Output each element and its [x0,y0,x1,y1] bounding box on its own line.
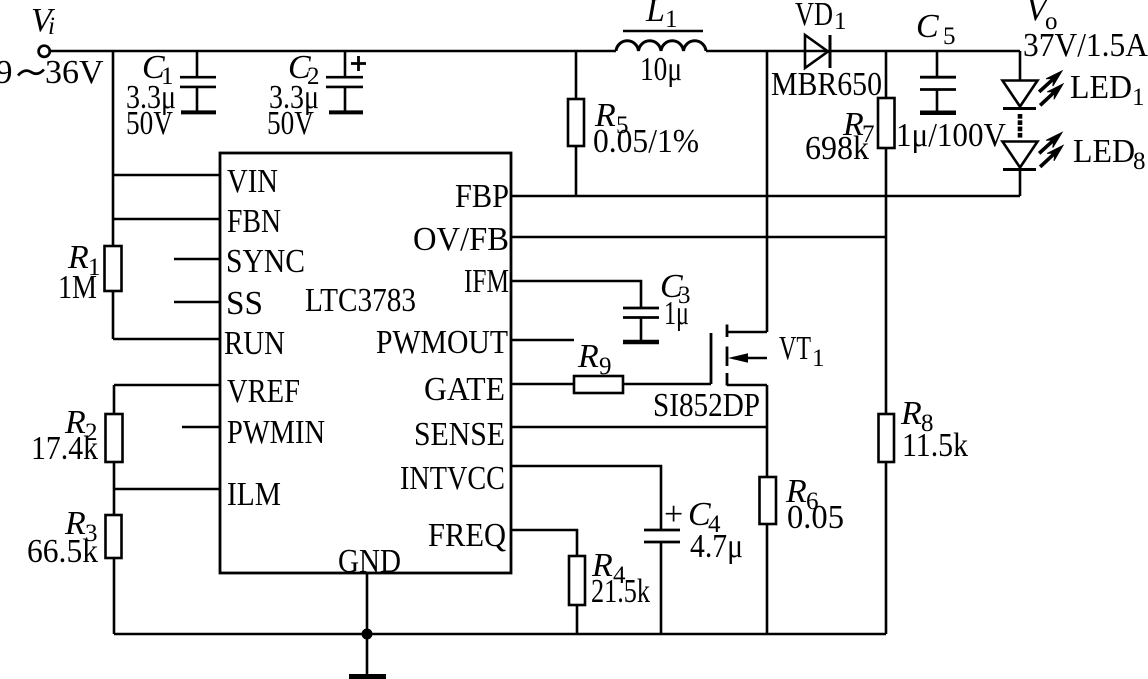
wire R7 top lead [885,51,888,98]
IC U1 LTC3783 box [220,153,511,573]
svg-text:FBN: FBN [227,203,281,240]
svg-text:9: 9 [599,353,612,380]
svg-text:R: R [577,338,599,375]
inductor L1 [616,41,706,51]
resistor R6 label [785,473,844,536]
capacitor C5 [920,77,956,113]
wire SENSE [511,426,767,429]
svg-text:C: C [916,8,939,45]
wire GATE to R9 [511,383,574,386]
LED8 label [1073,133,1146,175]
svg-text:1M: 1M [58,269,97,306]
resistor R9 body [574,376,623,393]
svg-text:50V: 50V [267,105,314,142]
resistor R9 label [577,338,612,380]
wire SS stub [174,301,220,304]
wire top rail left [50,50,616,53]
dotted wire between LED1 and LED8 [1018,114,1023,138]
wire R7 bottom to R8 [885,148,888,414]
wire INTVCC to C4 [511,466,661,529]
svg-text:i: i [48,13,55,40]
svg-text:FBP: FBP [455,178,509,215]
transistor VT1 label [653,330,825,424]
wire ILM [114,488,220,491]
capacitor C1 label [126,49,176,142]
svg-text:SYNC: SYNC [226,243,305,280]
wire top rail right [706,50,1020,53]
svg-text:PWMIN: PWMIN [227,414,325,451]
svg-text:VREF: VREF [227,373,300,410]
wire FREQ to R4 [511,530,577,556]
svg-text:ILM: ILM [227,476,281,513]
svg-text:+: + [664,496,683,533]
svg-text:LTC3783: LTC3783 [305,282,416,319]
svg-text:5: 5 [943,23,956,50]
resistor R2 label [31,404,98,467]
svg-text:66.5k: 66.5k [27,533,98,570]
resistor R1 label [58,239,101,306]
svg-text:L: L [645,0,665,29]
svg-text:8: 8 [1133,148,1146,175]
svg-text:VIN: VIN [227,163,278,200]
wire C4 bottom lead [660,543,663,634]
wire R6 leads [766,385,769,477]
capacitor C2 label [267,49,320,142]
svg-text:SI852DP: SI852DP [653,387,760,424]
svg-text:SENSE: SENSE [414,416,505,453]
svg-text:LED: LED [1070,69,1132,106]
capacitor C4 (electrolytic) [644,530,680,542]
LED8 light arrows [1039,133,1063,168]
svg-text:17.4k: 17.4k [31,430,98,467]
ground symbol [349,674,386,679]
svg-text:1: 1 [1132,84,1145,111]
wire LED8 bottom to FBP rail [1019,169,1022,196]
svg-text:21.5k: 21.5k [591,573,650,610]
svg-text:OV/FB: OV/FB [413,221,509,258]
svg-text:50V: 50V [126,105,173,142]
capacitor C5 label [896,8,1006,154]
wire C5 inner lead [936,89,939,111]
svg-text:FREQ: FREQ [428,517,506,554]
diode VD1 label [771,0,882,103]
resistor R4 label [591,547,650,610]
wire R1 bottom to RUN [112,291,115,339]
svg-text:11.5k: 11.5k [902,427,968,464]
node Vo label [1023,0,1148,64]
resistor R8 body [879,414,895,462]
wire PWMIN stub [182,426,220,429]
wire RUN [113,338,220,341]
resistor R2 body [106,414,123,462]
IC U1 pin labels [224,163,509,580]
wire R4 bottom lead [576,605,579,634]
svg-text:GATE: GATE [424,371,505,408]
wire switch-node drain vertical [766,51,769,332]
wire bottom ground bus [114,633,886,636]
wire OV/FB [511,236,886,239]
resistor R8 label [900,395,968,464]
resistor R5 label [593,97,699,160]
diode VD1 MBR650 [805,35,830,68]
wire GND lead [366,573,369,676]
svg-text:VT: VT [779,330,811,367]
svg-text:INTVCC: INTVCC [400,460,505,497]
wire left input bus [112,51,115,246]
node Vi label [0,2,104,91]
svg-text:1μ: 1μ [664,295,689,332]
svg-text:4.7μ: 4.7μ [690,528,743,565]
svg-text:IFM: IFM [464,263,509,300]
capacitor C1 [180,51,216,112]
wire R8 bottom lead [885,462,888,634]
resistor R4 body [569,556,585,605]
wire PWMOUT stub [511,339,574,342]
wire SYNC stub [174,258,220,261]
svg-text:RUN: RUN [224,325,285,362]
resistor R1 body [105,246,122,291]
wire VIN [113,174,220,177]
wire LED top drop [1019,51,1022,80]
wire R2 bottom to ILM [113,462,116,515]
LED1 [1003,81,1038,109]
svg-text:0.05/1%: 0.05/1% [593,123,699,160]
svg-text:LED: LED [1073,133,1135,170]
capacitor C4 label [664,496,743,565]
svg-text:37V/1.5A: 37V/1.5A [1023,27,1148,64]
wire FBN [113,218,220,221]
wire R5 bottom lead [575,146,578,196]
wire R9 to gate bar [623,383,711,386]
svg-text:PWMOUT: PWMOUT [376,324,508,361]
svg-text:0.05: 0.05 [787,499,844,536]
wire C5 top lead [936,51,939,77]
node junction dot at GND bus [362,629,373,640]
LED1 label [1070,69,1145,111]
svg-text:VD: VD [795,0,833,33]
wire R3 bottom to ground bus [113,558,116,634]
resistor R3 body [106,515,122,558]
svg-text:GND: GND [338,543,401,580]
svg-text:MBR650: MBR650 [771,66,882,103]
svg-text:1μ/100V: 1μ/100V [896,117,1006,154]
svg-text:698k: 698k [805,130,869,167]
svg-text:SS: SS [226,285,263,322]
resistor R7 body [878,98,895,148]
LED1 light arrows [1039,71,1063,106]
wire VREF [114,384,220,387]
resistor R7 label [805,106,875,167]
capacitor C3 label [660,268,691,332]
wire FBP [511,195,1020,198]
svg-text:1: 1 [665,6,678,33]
wire IFM [511,281,641,308]
LED8 [1003,142,1038,170]
node Vi input terminal [39,46,50,57]
svg-text:9: 9 [0,54,13,91]
wire R5 top lead [575,51,578,99]
capacitor C2 (electrolytic) [326,51,366,112]
capacitor C3 [623,308,659,342]
svg-text:36V: 36V [45,54,104,91]
svg-text:1: 1 [812,345,825,372]
resistor R3 label [27,505,98,570]
wire VREF bus to R2 [113,385,116,414]
resistor R5 body [568,99,584,146]
resistor R6 body [760,477,777,524]
svg-text:10μ: 10μ [640,51,682,88]
svg-text:1: 1 [834,8,847,35]
inductor L1 label [623,0,703,88]
transistor VT1 SI852DP (N-MOSFET) [711,325,767,386]
